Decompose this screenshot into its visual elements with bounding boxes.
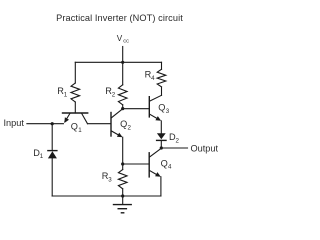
- svg-text:3: 3: [166, 108, 170, 115]
- svg-text:Q: Q: [120, 119, 127, 129]
- svg-text:Q: Q: [161, 158, 168, 168]
- svg-text:V: V: [117, 34, 123, 43]
- svg-text:Input: Input: [4, 118, 25, 128]
- svg-text:Q: Q: [158, 103, 165, 113]
- svg-text:4: 4: [168, 164, 172, 171]
- svg-text:3: 3: [108, 177, 112, 184]
- svg-text:1: 1: [64, 92, 68, 99]
- svg-text:2: 2: [128, 124, 132, 131]
- svg-text:Q: Q: [71, 121, 78, 131]
- svg-text:1: 1: [40, 153, 44, 160]
- svg-text:2: 2: [176, 137, 180, 144]
- svg-text:1: 1: [78, 127, 82, 134]
- svg-text:Output: Output: [191, 143, 219, 153]
- svg-text:4: 4: [151, 75, 155, 82]
- svg-text:cc: cc: [123, 38, 129, 44]
- svg-text:2: 2: [112, 92, 116, 99]
- svg-text:Practical Inverter (NOT) circu: Practical Inverter (NOT) circuit: [56, 13, 183, 23]
